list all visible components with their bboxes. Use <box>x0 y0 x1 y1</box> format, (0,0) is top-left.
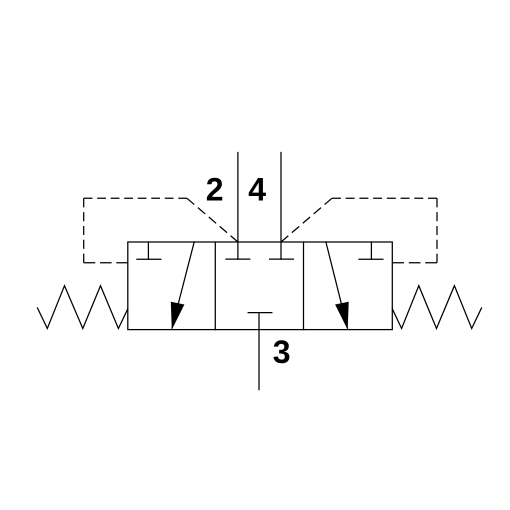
spring, left return spring <box>38 286 128 329</box>
pilot line (dashed), left top segment <box>84 197 187 199</box>
blocked port 4 bar (middle cell) <box>270 258 294 260</box>
svg-text:4: 4 <box>248 172 266 208</box>
svg-text:2: 2 <box>206 172 224 208</box>
wire: port 2 line <box>237 153 239 260</box>
flow path arrow shaft, right cell <box>326 242 348 328</box>
pilot line (dashed), left diagonal to port 2 <box>187 198 238 242</box>
blocked port symbol, left cell (bar) <box>137 258 161 260</box>
blocked port 3 bar (middle cell) <box>248 312 272 314</box>
pilot line (dashed), right vertical segment <box>436 198 438 262</box>
svg-text:3: 3 <box>273 334 291 370</box>
valve position divider (left/middle) <box>214 242 216 330</box>
arrowhead, right cell flow arrow <box>335 302 349 330</box>
pilot line (dashed), right top segment <box>332 197 437 199</box>
pilot line (dashed), left vertical segment <box>83 198 85 262</box>
pilot line (dashed), right diagonal to port 4 <box>281 198 332 242</box>
blocked port symbol, right cell (bar) <box>359 258 383 260</box>
valve position divider (middle/right) <box>303 242 305 330</box>
blocked port symbol, left cell (stub) <box>147 242 149 259</box>
blocked port 2 bar (middle cell) <box>226 258 250 260</box>
spring, right return spring <box>392 286 481 329</box>
wire: port 4 line <box>280 153 282 260</box>
blocked port symbol, right cell (stub) <box>370 242 372 259</box>
wire: port 3 line <box>258 313 260 390</box>
pilot line (dashed), left bottom segment <box>84 262 128 264</box>
arrowhead, left cell flow arrow <box>171 302 185 330</box>
flow path arrow shaft, left cell <box>172 242 194 328</box>
pilot line (dashed), right bottom segment <box>392 262 437 264</box>
valve body envelope V1 <box>128 242 393 330</box>
